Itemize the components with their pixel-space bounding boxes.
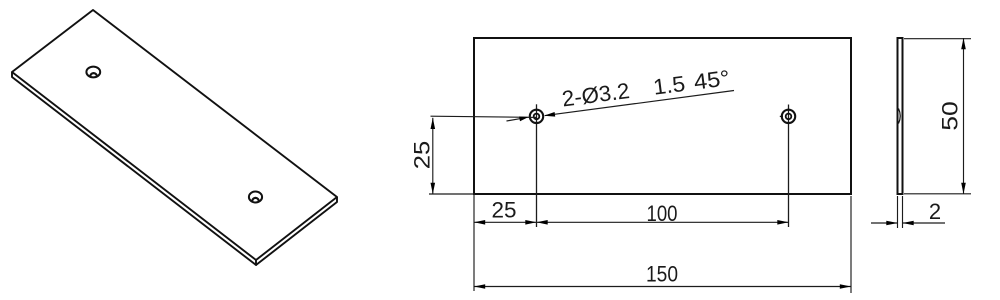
iso hole 1 inner countersink dome [90,73,97,76]
dim 2 right extension line [902,196,904,228]
dim 2 left arrow line [871,222,898,224]
extension line: front rect left edge extended down [473,194,475,291]
svg-text:25: 25 [492,198,517,223]
dim 50 dimension line [963,38,965,194]
isometric plate thickness right edge [256,197,337,265]
svg-text:2: 2 [929,199,941,224]
side view outline rect [898,38,903,194]
hole H1 center line vertical [536,104,538,227]
hole H2 outer circle [782,110,795,123]
leader extension line left of hole with arrow [431,116,538,117]
front view outline rect [474,38,851,194]
horizontal dim 25 dimension line [474,221,537,223]
horizontal dim 100 dimension line [537,221,789,223]
iso hole 1 outer rim [86,67,100,78]
hole H2 inner circle [786,114,792,120]
dim 50 top extension line [904,38,971,40]
vertical dim 25 dimension line [432,118,434,194]
hole H1 inner circle [534,114,540,120]
svg-text:150: 150 [646,262,678,287]
hole H2 left center tick [780,115,783,117]
isometric plate thickness left edge [12,72,256,265]
vertical dim 25 bottom extension line [429,193,474,195]
iso hole 2 outer rim [249,192,262,203]
horizontal dim 150 dimension line [474,286,851,288]
isometric plate top face [12,10,337,260]
dim 50 bottom extension line [904,193,971,195]
svg-text:100: 100 [647,201,678,226]
svg-text:50: 50 [938,101,963,131]
leader tail slant segment [507,118,523,121]
iso hole 2 inner countersink dome [252,198,259,201]
leader line to callout [545,91,734,116]
dim 2 left extension line [897,196,899,228]
side view countersink arc [899,109,901,124]
extension line: right edge extended down [850,196,852,293]
hole H2 center line vertical [788,105,790,228]
hole H1 outer circle [530,110,543,123]
dim 2 right arrow line [903,222,946,224]
svg-text:25: 25 [410,141,435,170]
